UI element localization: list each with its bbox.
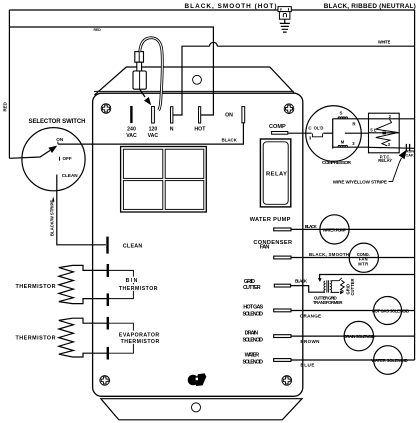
transformer T1 on board bbox=[121, 147, 207, 213]
power plug P1 bbox=[278, 7, 291, 20]
wire hop over hot line bbox=[210, 42, 218, 46]
svg-text:RED: RED bbox=[94, 28, 102, 32]
wire grid cutter to transformer bbox=[291, 286, 325, 293]
pin condenser fan bbox=[274, 256, 291, 259]
ground symbol bbox=[280, 19, 290, 32]
pin drain solenoid bbox=[274, 335, 291, 338]
wire condenser fan bbox=[291, 257, 415, 259]
svg-text:BIN: BIN bbox=[126, 278, 138, 284]
svg-text:OFF: OFF bbox=[63, 156, 72, 161]
svg-text:EVAPORATOR: EVAPORATOR bbox=[119, 332, 160, 338]
svg-text:BLACK: BLACK bbox=[305, 224, 318, 229]
svg-text:ORANGE: ORANGE bbox=[300, 314, 321, 319]
hole bottom flange bbox=[192, 403, 201, 412]
hole top plate bbox=[193, 75, 202, 84]
compressor motor M3 bbox=[306, 106, 369, 162]
svg-text:THERMISTOR: THERMISTOR bbox=[16, 284, 56, 290]
fuse F1 bbox=[133, 52, 146, 90]
PTC relay bbox=[369, 113, 415, 153]
svg-text:BLUE: BLUE bbox=[300, 362, 314, 367]
svg-text:RELAY: RELAY bbox=[378, 158, 392, 163]
svg-text:120: 120 bbox=[149, 127, 158, 133]
board bottom flange bbox=[101, 399, 302, 420]
svg-text:THERMISTOR: THERMISTOR bbox=[119, 286, 158, 292]
label EVAPORATOR THERMISTOR bbox=[118, 331, 160, 337]
svg-text:WATER PUMP: WATER PUMP bbox=[323, 227, 347, 232]
screw top-left bbox=[101, 104, 111, 114]
svg-text:WATER PUMP: WATER PUMP bbox=[250, 217, 291, 223]
svg-text:HOT: HOT bbox=[194, 127, 206, 133]
svg-text:VAC: VAC bbox=[126, 133, 137, 139]
svg-text:WIRE W/YELLOW STRIPE: WIRE W/YELLOW STRIPE bbox=[333, 179, 387, 184]
wire switch CLEAN to board CLEAN terminal bbox=[57, 175, 106, 245]
svg-text:CLEAN: CLEAN bbox=[62, 173, 79, 178]
board top plate bbox=[94, 67, 294, 95]
terminal BIN thermistor A bbox=[107, 264, 109, 277]
svg-text:BLACK/W STRIPE: BLACK/W STRIPE bbox=[49, 200, 54, 236]
wire neutral branch to N terminal bbox=[173, 46, 415, 115]
arrow fuse to 120 VAC bbox=[140, 89, 145, 97]
svg-text:TRANSFORMER: TRANSFORMER bbox=[313, 300, 344, 305]
svg-text:THERMISTOR: THERMISTOR bbox=[121, 339, 160, 345]
svg-text:DRAIN: DRAIN bbox=[245, 330, 259, 336]
terminal CLEAN bbox=[106, 237, 108, 254]
terminal N bbox=[171, 107, 173, 123]
hot gas solenoid L1 bbox=[374, 297, 402, 325]
terminal 240 VAC bbox=[130, 106, 132, 123]
drain solenoid L2 bbox=[344, 321, 373, 350]
terminal EVAP thermistor B bbox=[107, 347, 109, 360]
svg-text:CLEAN: CLEAN bbox=[123, 243, 143, 249]
svg-text:OL'D: OL'D bbox=[314, 126, 324, 131]
wire switch ON to board ON terminal bbox=[58, 123, 243, 144]
terminal HOT bbox=[199, 107, 201, 123]
svg-text:WATER SOLENOID: WATER SOLENOID bbox=[371, 358, 408, 363]
svg-text:WHITE: WHITE bbox=[378, 40, 391, 45]
svg-text:N: N bbox=[170, 127, 174, 133]
wire drain solenoid bbox=[291, 335, 415, 337]
pin water solenoid bbox=[274, 359, 291, 362]
overload protector bbox=[312, 134, 322, 137]
svg-text:BLACK, SMOOTH (HOT): BLACK, SMOOTH (HOT) bbox=[185, 3, 277, 10]
svg-text:MTR: MTR bbox=[358, 261, 368, 266]
wire hot top bbox=[9, 9, 414, 11]
water solenoid L3 bbox=[374, 346, 403, 375]
svg-text:CUTTER: CUTTER bbox=[350, 279, 355, 296]
svg-text:CAP.: CAP. bbox=[406, 153, 415, 157]
svg-text:BLACK, SMOOTH: BLACK, SMOOTH bbox=[309, 252, 349, 257]
svg-text:WATER: WATER bbox=[245, 352, 260, 358]
pin grid cutter bbox=[274, 284, 290, 287]
svg-text:5 L: 5 L bbox=[370, 128, 376, 133]
svg-text:VAC: VAC bbox=[148, 133, 159, 139]
svg-text:FAN: FAN bbox=[260, 245, 270, 251]
svg-text:COMPRESSOR: COMPRESSOR bbox=[322, 160, 352, 166]
wire fuse lead (insulated loop) bbox=[140, 38, 162, 111]
svg-text:BLACK: BLACK bbox=[222, 137, 238, 142]
svg-text:ON: ON bbox=[56, 137, 64, 142]
svg-text:GRID: GRID bbox=[244, 279, 255, 285]
svg-text:S: S bbox=[340, 111, 343, 116]
svg-text:CUTTER: CUTTER bbox=[243, 285, 261, 291]
svg-text:DRAIN SOLENOID: DRAIN SOLENOID bbox=[344, 334, 375, 339]
UL mark bbox=[188, 373, 207, 386]
svg-text:RELAY: RELAY bbox=[266, 172, 287, 178]
terminal BIN thermistor B bbox=[107, 293, 109, 306]
svg-text:BROWN: BROWN bbox=[300, 339, 320, 344]
terminal EVAP thermistor A bbox=[107, 317, 109, 330]
bin thermistor RT1 bbox=[59, 265, 134, 303]
cutter grid transformer T2 bbox=[324, 278, 355, 296]
switch wiper arrow bbox=[9, 151, 50, 159]
svg-text:HOT GAS SOLENOID: HOT GAS SOLENOID bbox=[372, 308, 410, 313]
svg-text:SELECTOR SWITCH: SELECTOR SWITCH bbox=[29, 119, 86, 125]
pin hot gas solenoid bbox=[274, 309, 291, 312]
svg-text:SOLENOID: SOLENOID bbox=[243, 360, 264, 366]
svg-text:SOLENOID: SOLENOID bbox=[243, 338, 264, 344]
svg-text:ON: ON bbox=[225, 113, 233, 119]
terminal ON bbox=[242, 107, 245, 123]
screw bottom-right bbox=[282, 376, 292, 386]
evaporator thermistor RT2 bbox=[59, 318, 134, 357]
svg-text:M: M bbox=[341, 140, 345, 145]
pin water pump bbox=[274, 228, 291, 231]
wire comp terminal to compressor bbox=[288, 132, 312, 134]
wire water solenoid bbox=[291, 359, 415, 361]
screw top-right bbox=[284, 104, 294, 114]
wire hot branch to HOT terminal bbox=[9, 27, 213, 115]
water pump motor M1 bbox=[320, 215, 349, 244]
label BIN THERMISTOR bbox=[124, 277, 139, 283]
svg-text:RED: RED bbox=[3, 102, 8, 111]
svg-text:SOLENOID: SOLENOID bbox=[243, 312, 264, 318]
control board outline bbox=[93, 93, 303, 396]
selector switch SW1 bbox=[3, 102, 86, 191]
svg-text:THERMISTOR: THERMISTOR bbox=[16, 335, 56, 341]
svg-text:BLACK, RIBBED (NEUTRAL): BLACK, RIBBED (NEUTRAL) bbox=[324, 3, 416, 10]
wire run winding to neutral (through run cap) bbox=[369, 147, 415, 148]
terminal COMP bbox=[272, 132, 288, 135]
svg-text:COMP: COMP bbox=[269, 124, 286, 130]
svg-text:HOT GAS: HOT GAS bbox=[243, 304, 263, 310]
wire neutral bus right bbox=[414, 10, 416, 360]
relay K1 on board bbox=[260, 139, 290, 207]
wire hot left feeder bbox=[8, 10, 10, 158]
svg-text:BLACK: BLACK bbox=[295, 279, 308, 284]
terminal 120 VAC bbox=[152, 107, 155, 124]
run capacitor bbox=[406, 144, 409, 151]
wire hot gas solenoid bbox=[291, 310, 415, 312]
condenser fan motor M2 bbox=[349, 243, 378, 272]
svg-text:240: 240 bbox=[127, 127, 136, 133]
screw bottom-left bbox=[100, 376, 110, 386]
wire transformer to neutral bbox=[320, 275, 415, 279]
wire water pump bbox=[291, 228, 415, 230]
